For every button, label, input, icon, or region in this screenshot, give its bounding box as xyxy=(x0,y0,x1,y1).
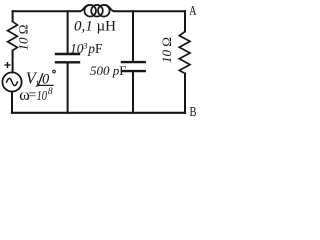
wire: left rail between R1 and source V1 xyxy=(12,51,14,73)
svg-text:10 Ω: 10 Ω xyxy=(16,25,31,51)
wire: capacitor C1 branch bottom xyxy=(67,64,69,113)
wire: right rail top (node A to resistor R2) xyxy=(184,11,186,31)
wire: right rail bottom (R2 to node B) xyxy=(184,74,186,113)
svg-text:10: 10 xyxy=(37,89,47,104)
wire: left rail below source V1 xyxy=(11,92,13,113)
wire: top-left horizontal segment xyxy=(13,10,80,12)
svg-text:8: 8 xyxy=(48,87,53,97)
voltage source V1 sine wave xyxy=(7,78,18,85)
svg-text:10 Ω: 10 Ω xyxy=(159,37,174,63)
voltage source V1 plus sign xyxy=(5,63,10,68)
wire: left rail top (corner to resistor R1) xyxy=(12,11,14,21)
angle symbol of V1 phasor label xyxy=(38,74,53,86)
svg-text:=: = xyxy=(28,88,36,103)
inductor L1 coil xyxy=(80,5,114,17)
svg-text:B: B xyxy=(190,105,197,120)
wire: capacitor C2 branch bottom xyxy=(132,72,134,113)
wire: capacitor C1 branch top xyxy=(67,11,69,53)
voltage source V1 circle xyxy=(2,72,21,91)
capacitor C1 plates xyxy=(56,54,79,62)
svg-text:500 pF: 500 pF xyxy=(90,63,126,78)
resistor R1 zigzag xyxy=(8,22,18,51)
svg-text:103pF: 103pF xyxy=(70,40,103,56)
capacitor C2 plates xyxy=(122,62,145,71)
resistor R2 zigzag xyxy=(179,32,190,74)
svg-text:0,1 µH: 0,1 µH xyxy=(74,19,116,35)
wire: capacitor C2 branch top xyxy=(132,11,134,61)
wire: bottom horizontal rail xyxy=(12,112,185,114)
svg-text:A: A xyxy=(189,4,197,19)
wire: top-right horizontal segment xyxy=(114,10,185,12)
svg-text:0: 0 xyxy=(42,71,50,87)
